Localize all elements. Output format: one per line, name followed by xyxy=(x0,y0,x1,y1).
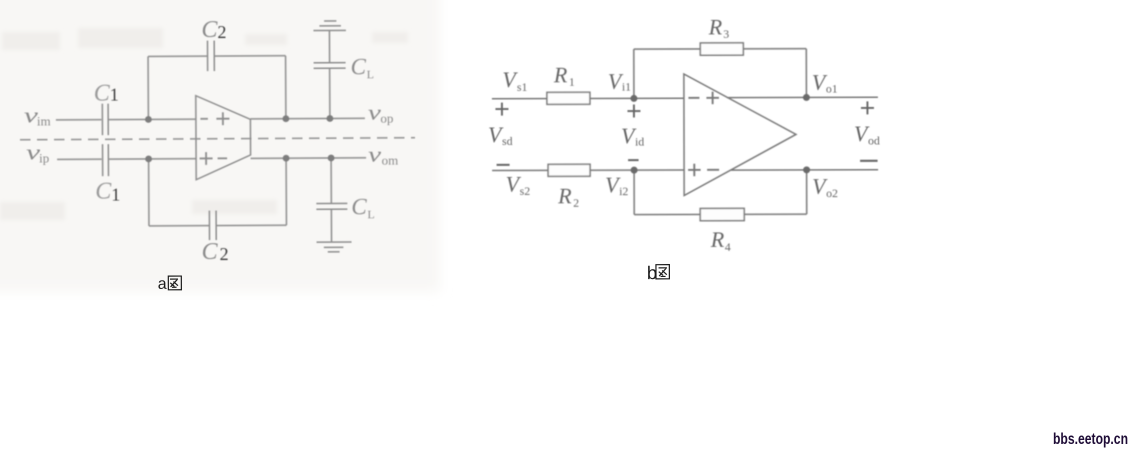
op-amp U1 minus mark bottom xyxy=(218,157,227,159)
node vop CL junction xyxy=(326,115,333,122)
plus sign Vod top xyxy=(861,101,874,114)
svg-text:o2: o2 xyxy=(826,186,838,200)
ghost bleed-through smudges xyxy=(0,28,408,220)
svg-text:om: om xyxy=(382,153,399,168)
wire R2 to op-amp xyxy=(590,169,684,171)
capacitor CL bottom plates xyxy=(316,203,347,209)
node top input junction xyxy=(145,116,152,123)
ground top (inverted) xyxy=(313,21,346,31)
svg-text:R: R xyxy=(553,62,568,87)
svg-text:2: 2 xyxy=(573,196,579,210)
resistor R3 xyxy=(700,43,743,55)
plus sign Vid top xyxy=(627,105,640,118)
wire Vo2 output xyxy=(731,169,878,171)
svg-text:i1: i1 xyxy=(622,80,631,94)
node bottom input junction xyxy=(145,156,152,163)
wire R4 feedback loop xyxy=(634,170,807,215)
svg-text:2: 2 xyxy=(220,244,229,264)
svg-text:C: C xyxy=(351,54,367,79)
scan background tint (a) xyxy=(0,0,440,292)
ground bottom xyxy=(317,242,352,252)
capacitor C2 top plates xyxy=(207,41,214,72)
node vom feedback junction xyxy=(283,155,290,162)
caption a xyxy=(158,276,182,293)
caption b box glyph (tu) xyxy=(656,265,669,279)
wire C1 to op-amp top xyxy=(109,118,196,120)
svg-text:R: R xyxy=(710,227,725,252)
op-amp U2 plus mark bottom xyxy=(688,164,701,177)
svg-text:3: 3 xyxy=(723,27,729,41)
svg-text:4: 4 xyxy=(725,240,731,254)
svg-text:im: im xyxy=(37,113,51,128)
wire vip input xyxy=(57,158,101,160)
capacitor C2 bottom plates xyxy=(209,211,216,241)
svg-text:1: 1 xyxy=(111,185,120,205)
svg-text:2: 2 xyxy=(217,22,226,42)
svg-text:id: id xyxy=(635,135,644,149)
svg-text:R: R xyxy=(708,14,723,39)
svg-text:od: od xyxy=(868,133,880,147)
svg-text:i2: i2 xyxy=(619,184,628,198)
node Vo2 xyxy=(803,166,810,173)
minus sign Vod bottom xyxy=(860,160,877,162)
svg-text:C: C xyxy=(351,194,367,219)
op-amp U1 minus mark top xyxy=(200,118,207,120)
wire Vs1 to R1 xyxy=(492,98,547,100)
svg-text:ν: ν xyxy=(368,142,381,167)
op-amp U1 body xyxy=(196,95,251,179)
svg-text:ip: ip xyxy=(39,150,49,165)
plus sign source top xyxy=(495,103,508,116)
wire R3 feedback loop xyxy=(634,49,807,99)
op-amp U2 body xyxy=(684,74,796,196)
node vom CL junction xyxy=(328,155,335,162)
capacitor C1 bottom plates xyxy=(103,144,109,176)
svg-text:1: 1 xyxy=(569,75,575,89)
wire vom output xyxy=(251,157,366,160)
op-amp U2 minus mark top xyxy=(688,97,699,99)
minus sign Vid bottom xyxy=(628,159,638,161)
svg-text:a: a xyxy=(158,276,167,293)
caption a box glyph (tu) xyxy=(168,276,181,290)
wire Vs2 to R2 xyxy=(492,169,548,171)
svg-text:op: op xyxy=(380,111,393,126)
svg-text:C: C xyxy=(202,239,219,265)
svg-text:bbs.eetop.cn: bbs.eetop.cn xyxy=(1053,431,1128,448)
wire C2 bottom feedback loop xyxy=(149,158,287,226)
node Vo1 xyxy=(803,94,810,101)
svg-text:C: C xyxy=(94,81,111,107)
svg-text:L: L xyxy=(367,67,374,81)
svg-text:s2: s2 xyxy=(520,184,531,198)
svg-text:R: R xyxy=(557,183,572,208)
symmetry axis (dashed) xyxy=(20,138,415,140)
op-amp U1 plus mark bottom xyxy=(200,152,213,165)
svg-text:s1: s1 xyxy=(517,80,528,94)
op-amp U2 plus mark top xyxy=(706,92,719,105)
capacitor C1 top plates xyxy=(102,104,108,136)
wire C1 to op-amp bottom xyxy=(109,158,196,160)
node vop feedback junction xyxy=(282,115,289,122)
svg-text:L: L xyxy=(367,207,374,221)
resistor R1 xyxy=(547,92,590,104)
svg-text:C: C xyxy=(201,17,218,43)
caption b xyxy=(647,262,670,283)
svg-text:ν: ν xyxy=(368,100,381,125)
minus sign source bottom xyxy=(497,164,510,166)
op-amp U1 plus mark top xyxy=(216,112,229,125)
resistor R4 xyxy=(700,208,744,220)
svg-text:o1: o1 xyxy=(826,82,838,96)
wire R1 to op-amp xyxy=(590,97,684,99)
wire C2 top feedback loop xyxy=(148,56,286,120)
svg-text:sd: sd xyxy=(502,134,513,148)
capacitor CL top plates xyxy=(314,63,346,69)
wire vim input xyxy=(56,119,101,121)
wire CL bottom stem xyxy=(330,158,332,242)
wire vop output xyxy=(250,117,364,120)
node Vi2 xyxy=(631,167,638,174)
op-amp U2 minus mark bottom xyxy=(707,169,719,171)
svg-text:C: C xyxy=(95,179,112,205)
wire CL top stem xyxy=(328,30,330,118)
wire Vo1 output xyxy=(727,96,878,98)
node Vi1 xyxy=(630,95,637,102)
svg-text:1: 1 xyxy=(110,85,119,105)
resistor R2 xyxy=(548,164,590,176)
